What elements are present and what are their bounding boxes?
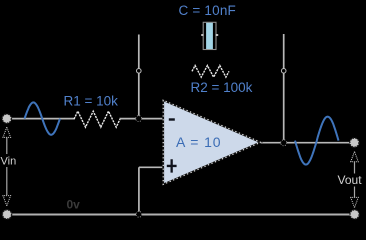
node: open circle on left feedback vertical	[137, 69, 142, 74]
wire: non-inverting input horizontal	[139, 166, 163, 168]
terminal: input bottom	[2, 210, 11, 219]
Vin measurement arrow down	[3, 196, 11, 206]
svg-text:A = 10: A = 10	[176, 134, 222, 150]
wire: input horizontal right of R1	[120, 118, 164, 120]
wire: bottom 0v rail	[7, 214, 355, 216]
svg-text:Vout: Vout	[338, 173, 363, 187]
Vin measurement arrow up	[3, 127, 11, 137]
junction: R1 / feedback / inverting input	[136, 116, 142, 122]
terminal: output top	[350, 138, 359, 147]
resistor R1	[74, 111, 120, 127]
Vout measurement arrow up	[351, 152, 359, 162]
Vout measurement arrow down	[351, 197, 359, 207]
op-amp U1 body	[163, 100, 260, 184]
wire: non-inverting input vertical to 0v rail	[138, 167, 140, 214]
Vin label	[0, 154, 19, 167]
wire stub right of capacitor	[216, 34, 218, 36]
Vout measurement stem	[354, 162, 356, 198]
svg-text:C = 10nF: C = 10nF	[179, 3, 237, 18]
capacitor C dielectric bar	[206, 23, 213, 49]
svg-text:Vin: Vin	[1, 156, 17, 168]
wire: right feedback vertical	[283, 34, 285, 143]
output Vout sine wave	[295, 117, 339, 165]
terminal: output bottom	[350, 210, 359, 219]
svg-text:R1 = 10k: R1 = 10k	[64, 94, 119, 109]
wire: left feedback vertical	[138, 35, 140, 119]
wire: input horizontal left of R1	[8, 118, 75, 120]
op-amp inverting input minus sign	[169, 118, 175, 120]
op-amp non-inverting input plus sign	[167, 159, 177, 172]
junction: output / feedback	[281, 140, 287, 146]
resistor R2	[192, 66, 229, 78]
svg-text:R2 = 100k: R2 = 100k	[191, 80, 253, 95]
svg-text:0v: 0v	[67, 198, 81, 212]
wire: output horizontal	[260, 142, 351, 144]
source Vin sine wave	[25, 102, 61, 134]
op-amp U1 dotted border highlight	[163, 100, 260, 184]
Vin measurement stem	[6, 137, 8, 195]
terminal: input top	[2, 114, 11, 123]
capacitor C body	[203, 22, 216, 49]
Vout label	[336, 174, 366, 187]
node: open circle on right feedback vertical	[281, 69, 286, 74]
wire stub left of capacitor	[201, 34, 203, 36]
junction: non-inverting ground	[136, 211, 142, 217]
